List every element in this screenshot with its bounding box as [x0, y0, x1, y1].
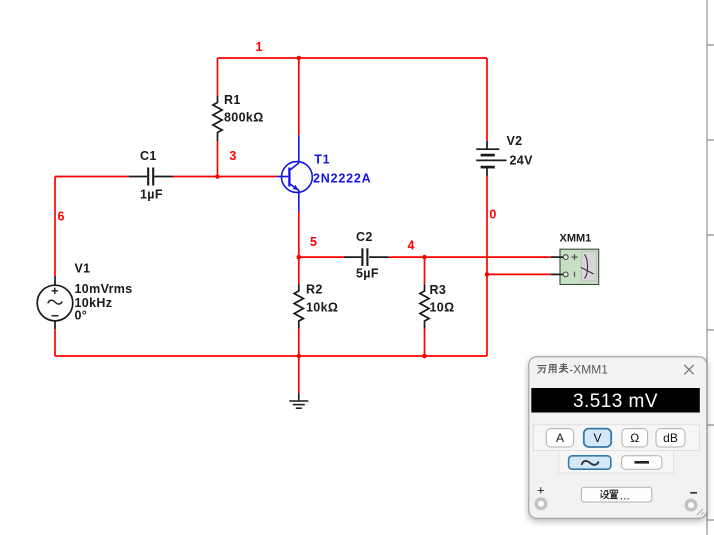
svg-text:5µF: 5µF	[356, 267, 379, 281]
svg-text:-XMM1: -XMM1	[569, 362, 608, 376]
svg-text:24V: 24V	[510, 154, 534, 168]
svg-text:5: 5	[310, 235, 317, 249]
svg-text:+: +	[537, 483, 545, 498]
svg-text:2N2222A: 2N2222A	[313, 172, 371, 186]
svg-text:R3: R3	[430, 283, 447, 297]
svg-text:R2: R2	[306, 283, 323, 297]
svg-text:T1: T1	[314, 153, 330, 167]
svg-text:10mVrms: 10mVrms	[75, 282, 133, 296]
svg-text:0: 0	[489, 208, 496, 222]
svg-text:V1: V1	[75, 262, 91, 276]
svg-text:C1: C1	[140, 149, 157, 163]
svg-text:V2: V2	[507, 134, 523, 148]
svg-text:3: 3	[229, 149, 236, 163]
svg-text:R1: R1	[224, 93, 241, 107]
svg-text:10Ω: 10Ω	[430, 301, 455, 315]
svg-text:1: 1	[256, 40, 263, 54]
svg-text:4: 4	[408, 239, 415, 253]
svg-text:...: ...	[620, 489, 630, 503]
svg-text:1µF: 1µF	[140, 188, 163, 202]
svg-text:C2: C2	[356, 230, 373, 244]
svg-text:Ω: Ω	[630, 431, 639, 445]
svg-text:800kΩ: 800kΩ	[224, 111, 264, 125]
svg-text:dB: dB	[663, 431, 678, 445]
svg-text:V: V	[593, 431, 601, 445]
svg-text:6: 6	[58, 210, 65, 224]
svg-text:0°: 0°	[75, 309, 88, 323]
svg-text:3.513 mV: 3.513 mV	[573, 391, 658, 412]
svg-text:XMM1: XMM1	[560, 233, 592, 245]
svg-text:A: A	[556, 431, 564, 445]
svg-text:10kΩ: 10kΩ	[306, 301, 338, 315]
